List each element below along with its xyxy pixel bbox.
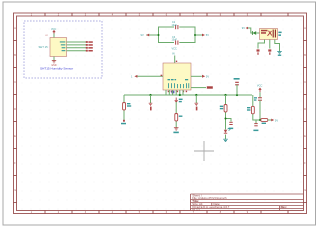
- R4 label: [220, 106, 223, 110]
- svg-text:9V: 9V: [242, 26, 245, 30]
- right net flag: [271, 119, 274, 122]
- svg-text:G: G: [14, 190, 16, 192]
- wire to flag: [268, 119, 271, 121]
- VCC power symbol: [259, 88, 261, 92]
- ic U2 pin names: [60, 41, 66, 51]
- U1 bottom gnd label (blue): [171, 91, 174, 94]
- svg-text:10uF: 10uF: [172, 24, 178, 27]
- wire: [123, 95, 125, 120]
- net flag left: [146, 34, 149, 37]
- gnd symbol: [195, 103, 199, 105]
- gnd symbol: [149, 103, 153, 105]
- resistor R3: [175, 114, 178, 122]
- down arrow: [175, 98, 178, 103]
- svg-text:5V: 5V: [206, 33, 209, 37]
- jack inner text: [261, 30, 268, 32]
- gnd text: [150, 107, 152, 111]
- svg-text:GND: GND: [51, 65, 56, 67]
- bus corner down: [253, 95, 260, 120]
- grid dots: [22, 20, 302, 210]
- svg-text:VCC: VCC: [257, 83, 263, 87]
- jack inner bars: [273, 30, 275, 38]
- capacitor C5: [235, 82, 239, 85]
- wire: [150, 95, 152, 103]
- pwr flag 1: [257, 49, 260, 54]
- svg-text:SHT15 Humidity Sensor: SHT15 Humidity Sensor: [40, 66, 73, 70]
- U1 top pin wire: [174, 56, 176, 64]
- wire C6 down: [259, 100, 261, 120]
- resistor R2: [123, 103, 126, 111]
- capacitor C2: [176, 25, 178, 29]
- gnd text: [173, 132, 178, 134]
- frame outer line: [14, 13, 307, 214]
- loop wires: [146, 27, 202, 43]
- chassis label: [278, 55, 281, 56]
- C4 label: [229, 128, 233, 130]
- wire to diode: [248, 28, 252, 33]
- svg-text:9V: 9V: [141, 33, 144, 37]
- stub to C7: [255, 120, 257, 123]
- diode D1: [252, 31, 256, 35]
- module boundary dashed box: [24, 21, 102, 78]
- U1 bottom pin numbers: [168, 91, 187, 93]
- resistor R6 (horizontal): [261, 119, 268, 122]
- capacitor C4: [229, 122, 232, 124]
- svg-text:SHT 15: SHT 15: [39, 45, 49, 49]
- U1 left pin wire: [137, 75, 163, 77]
- U1 left pin number: [161, 75, 163, 76]
- frame division ticks: [14, 13, 307, 214]
- connector JP pins: [86, 41, 88, 52]
- resistor R5: [251, 106, 254, 114]
- R3 label: [179, 116, 183, 117]
- chassis ground: [277, 52, 282, 54]
- C5 label: [234, 78, 240, 80]
- 9V net flag arrow: [246, 27, 248, 29]
- vcc pin wire (top): [53, 34, 55, 38]
- resistor R4: [224, 105, 227, 113]
- U1 inner pin names row2 (vertical): [168, 83, 189, 88]
- U1 right-bottom stub wire: [191, 87, 206, 89]
- C6 label: [254, 97, 257, 101]
- wire VCC down: [259, 92, 261, 97]
- U1 right net flag: [202, 75, 205, 78]
- U1 bottom pin stubs: [166, 90, 183, 95]
- U1 body: [163, 63, 191, 90]
- svg-text:10uF: 10uF: [172, 39, 178, 42]
- net flag right: [202, 34, 205, 37]
- end net label: [121, 123, 126, 125]
- R5 label: [247, 107, 250, 111]
- pwr flag 2: [268, 49, 271, 54]
- wire: [195, 95, 197, 103]
- svg-text:Rev:: Rev:: [281, 205, 287, 209]
- title block frame: [191, 193, 304, 195]
- net name (red) on stub: [207, 86, 213, 88]
- ic U2 body: [50, 38, 67, 57]
- gnd symbol: [174, 128, 179, 130]
- wire diode to jack: [256, 32, 259, 34]
- junction dots: [158, 34, 160, 36]
- R6 value label: [262, 123, 266, 124]
- wire to bus: [236, 85, 238, 95]
- U1 inner pin names row1: [168, 79, 189, 80]
- sensor pin wires to connector: [67, 42, 87, 51]
- frame division labels: [14, 15, 306, 214]
- svg-text:5V: 5V: [206, 75, 209, 79]
- capacitor C6: [258, 98, 262, 100]
- origin cross: [194, 141, 214, 161]
- svg-text:VCC: VCC: [172, 47, 177, 50]
- jack J1 body: [260, 29, 278, 40]
- wire: [175, 102, 177, 128]
- arrow label: [179, 99, 183, 103]
- frame inner line: [17, 16, 304, 211]
- C7 label: [253, 130, 258, 132]
- bus junction dots: [149, 94, 151, 96]
- svg-text:G: G: [304, 190, 306, 192]
- branch to C4: [226, 119, 232, 122]
- gnd pin wire (bottom): [53, 57, 55, 61]
- svg-text:Id: 1/1: Id: 1/1: [192, 207, 200, 211]
- jack bottom wires: [258, 40, 280, 52]
- wire: [225, 95, 227, 139]
- jack right label: [278, 32, 281, 36]
- svg-text:IN: IN: [172, 52, 175, 55]
- R2 label: [127, 103, 131, 107]
- vcc power symbol: [53, 31, 55, 34]
- connector pin labels: [88, 41, 92, 51]
- svg-text:VCC: VCC: [51, 28, 56, 31]
- gnd symbol: [52, 61, 56, 63]
- U1 top pin number: [176, 61, 177, 62]
- LED D2: [224, 128, 231, 133]
- capacitor C7: [254, 124, 257, 126]
- wire end pad: [123, 120, 125, 122]
- capacitor C3: [176, 41, 178, 45]
- U1 right pin wire: [191, 75, 202, 77]
- svg-text:5V: 5V: [275, 118, 278, 122]
- U1 left net flag: [134, 75, 137, 78]
- jack inner arrows: [268, 31, 272, 36]
- gnd text: [196, 107, 198, 111]
- chassis gnd: [223, 139, 228, 141]
- main horizontal bus: [124, 94, 252, 96]
